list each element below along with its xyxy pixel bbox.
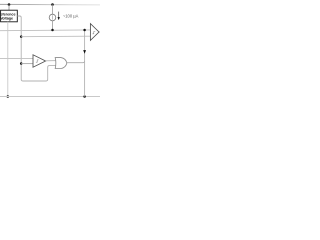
- comparator U2 triangle: [90, 24, 99, 41]
- OR gate G1: [55, 58, 67, 69]
- current direction arrowhead: [58, 17, 60, 20]
- reset signal arrowhead: [83, 50, 86, 54]
- comparator U1 triangle: [33, 55, 46, 67]
- wire lower comparator upper input from left edge: [0, 58, 33, 60]
- wire reference to lower comparator lower input: [21, 63, 33, 65]
- comparator U2 hysteresis mark: [93, 32, 96, 34]
- wire sense line from left edge to right comparator upper input: [0, 29, 90, 32]
- wire current source to sense line: [52, 21, 54, 30]
- node junction VCC to current source: [51, 3, 54, 6]
- wire OR gate output up to reset node: [67, 61, 85, 63]
- wire comparator U2 output stub: [99, 31, 100, 33]
- wire ground bottom rail: [0, 88, 100, 90]
- current direction arrow shaft: [58, 12, 60, 18]
- reference voltage box: [1, 10, 18, 22]
- comparator U1 hysteresis mark: [36, 60, 39, 62]
- node junction reference to upper comparator: [20, 35, 23, 38]
- wire reference to right comparator lower input: [21, 35, 90, 38]
- node junction above reference box: [8, 3, 11, 6]
- node junction box bottom on lower rail: [7, 95, 10, 98]
- wire from VCC rail down to reference box: [8, 5, 10, 11]
- svg-text:~100 µA: ~100 µA: [63, 14, 79, 19]
- svg-text:Voltage: Voltage: [0, 17, 13, 21]
- current source I1 inner arrow: [52, 15, 54, 19]
- node junction reset line on lower rail: [83, 95, 86, 98]
- wire reset node vertical: [84, 30, 86, 96]
- current source I1 circle: [49, 14, 56, 21]
- wire comparator U1 output to OR gate: [46, 60, 57, 62]
- wire VCC to current source: [52, 5, 54, 15]
- wire reference box right output down to OR gate lower input: [17, 16, 56, 81]
- wire lower ground rail: [0, 96, 100, 98]
- node junction reset on sense line: [83, 29, 86, 32]
- node junction reference to lower comparator: [20, 62, 23, 65]
- node junction current source on sense line: [51, 29, 54, 32]
- wire reference box bottom to ground rail: [7, 22, 9, 97]
- wire VCC top rail: [0, 3, 100, 6]
